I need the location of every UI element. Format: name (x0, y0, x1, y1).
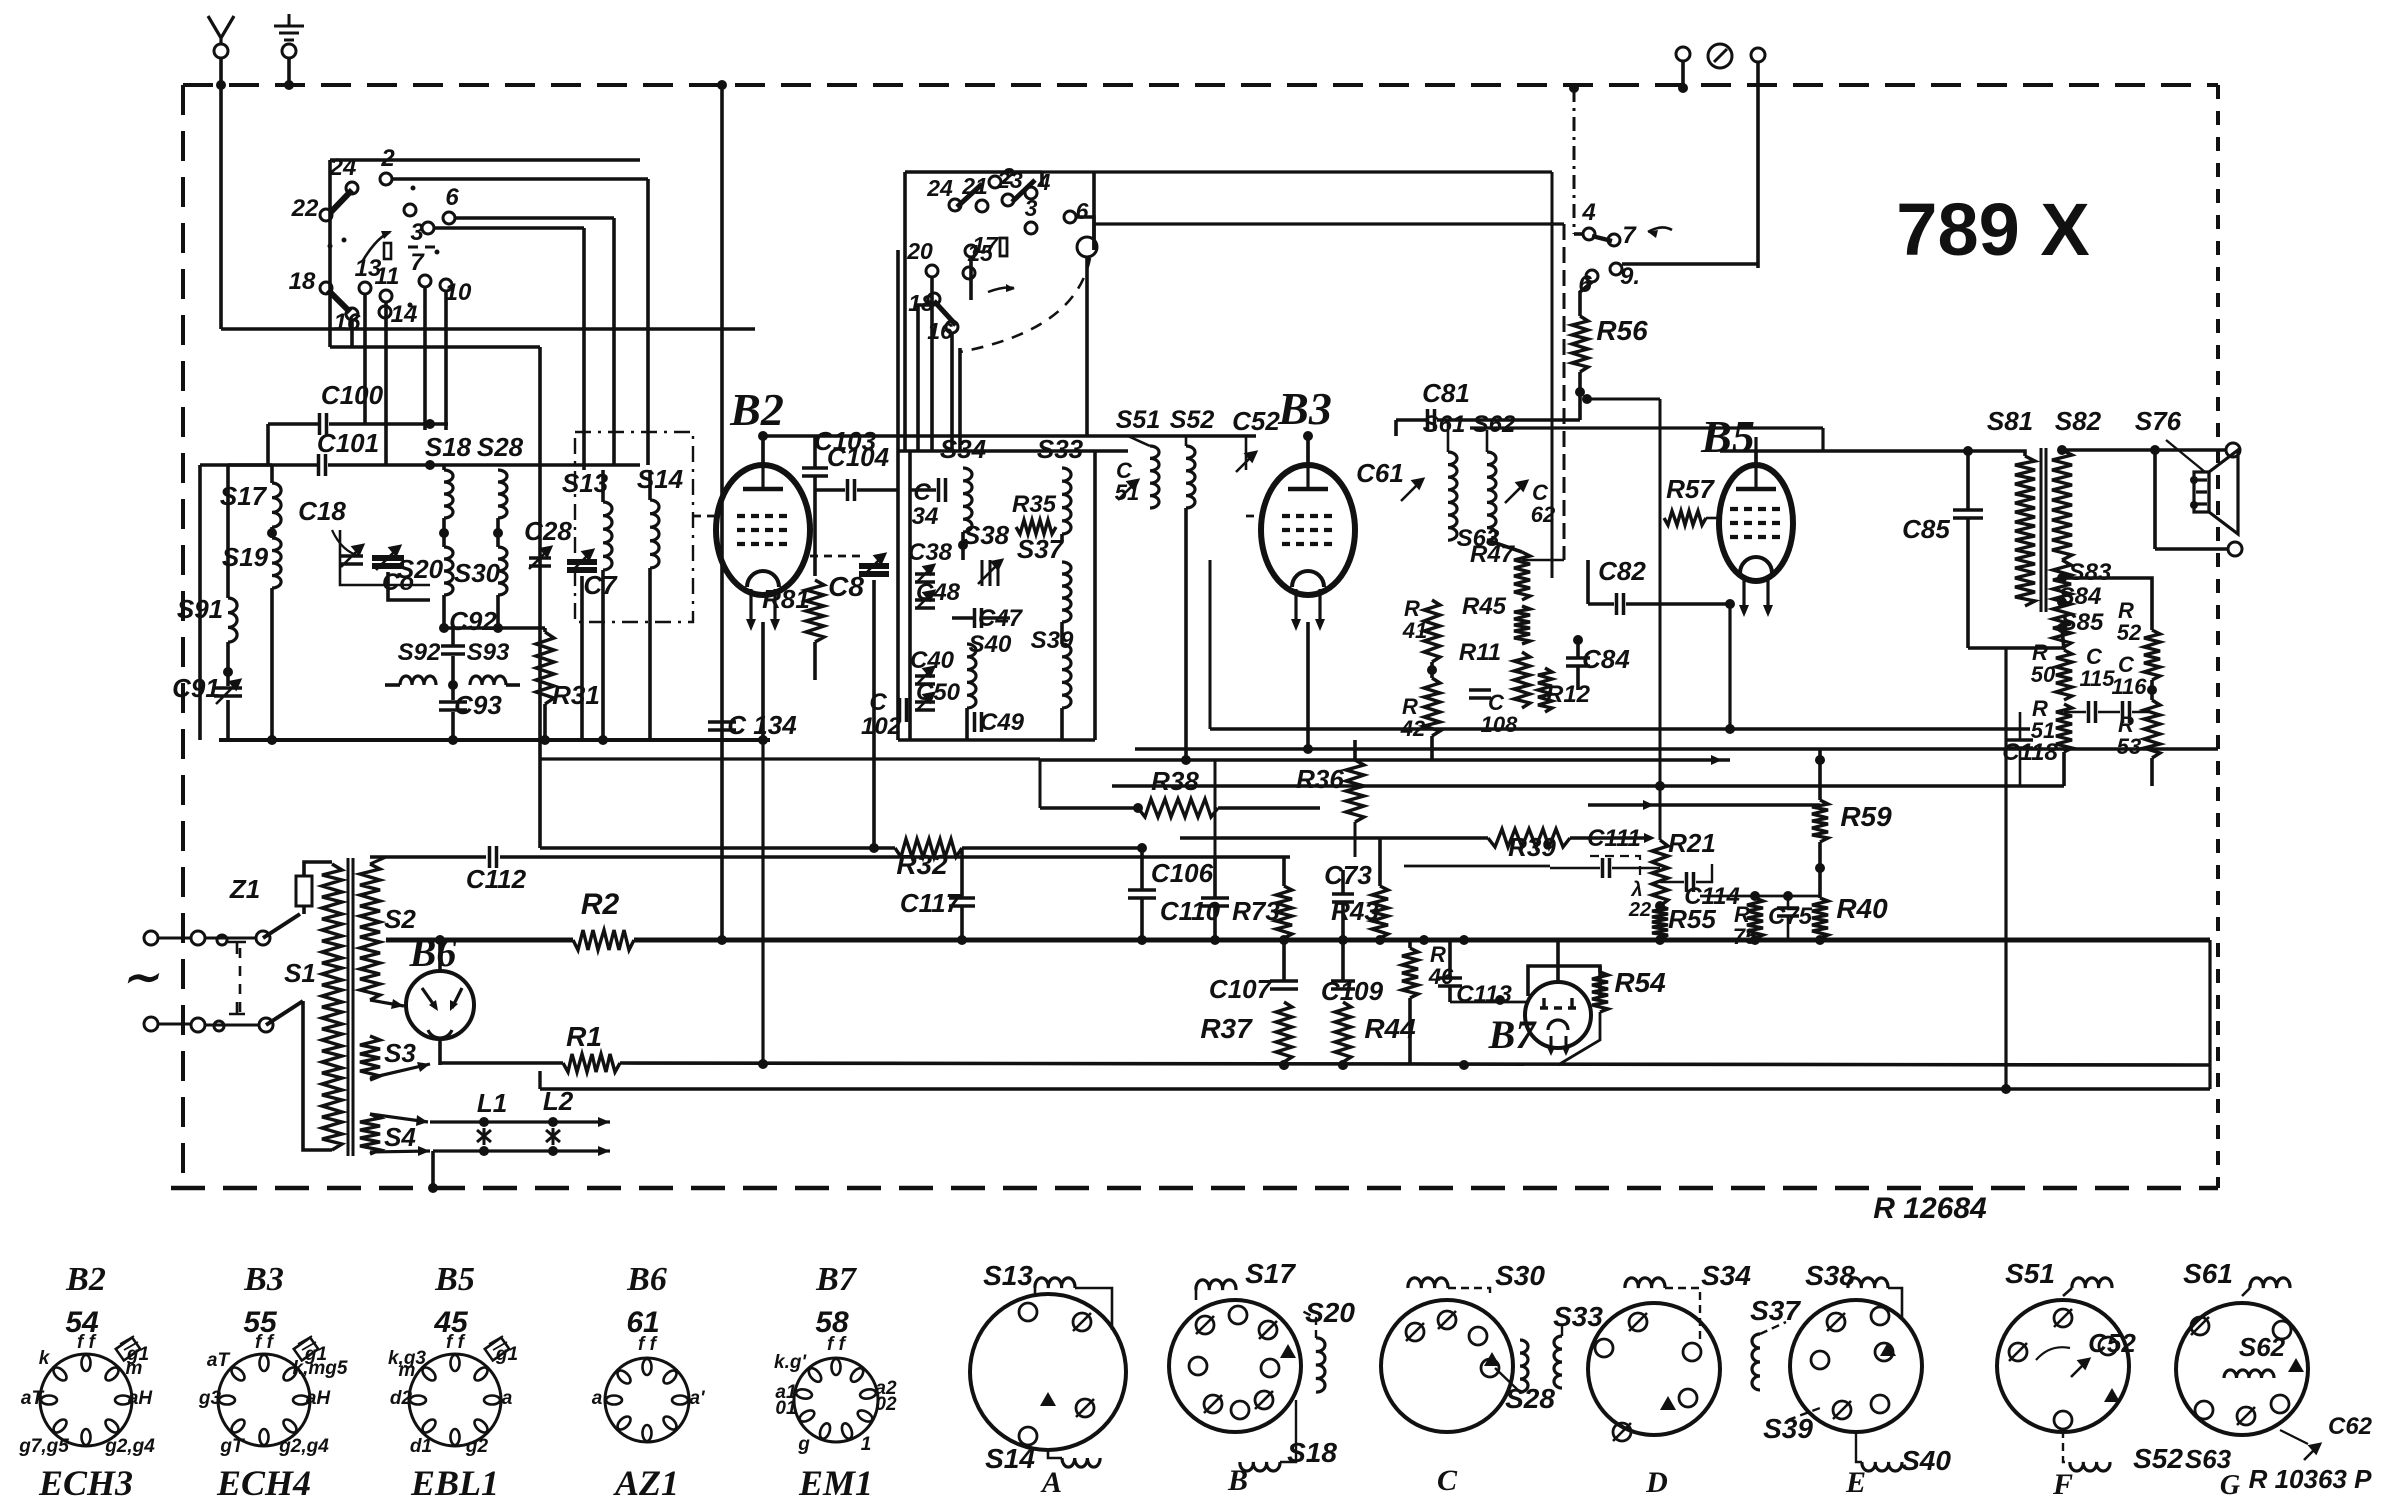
wire R57 to B5 (1706, 517, 1719, 520)
wire C104 row (815, 488, 845, 492)
svg-text:AZ1: AZ1 (613, 1463, 679, 1503)
wire main vertical feeder (720, 85, 724, 940)
wire S1 to primary (303, 1001, 332, 1150)
capacitor C106 (1128, 890, 1156, 898)
S3 arrow (370, 1062, 430, 1078)
svg-text:m: m (399, 1360, 416, 1381)
svg-text:S61: S61 (2183, 1258, 2233, 1289)
svg-text:EM1: EM1 (798, 1463, 873, 1503)
wire R32 row left (540, 846, 895, 850)
wire osc c18 down (918, 305, 934, 451)
switch S76-area contact 7 (1608, 234, 1620, 246)
resistor R12 (1538, 668, 1552, 712)
wire osc c16 down (950, 333, 954, 451)
wire R31 top (543, 628, 547, 632)
coil unit D pin (1683, 1343, 1701, 1361)
svg-text:24: 24 (329, 154, 357, 181)
svg-text:a: a (592, 1388, 603, 1409)
wire C75 stem (1787, 896, 1790, 908)
resistor R47 (1514, 552, 1530, 600)
node bus i (1459, 935, 1469, 945)
svg-text:R37: R37 (1200, 1013, 1253, 1044)
tube B5 (EBL1) (1719, 437, 1793, 617)
node B6 bus (435, 935, 445, 945)
osc switch contact 4 (1025, 187, 1037, 199)
wire S4 ground (431, 1151, 435, 1188)
shield box S13/S14 (dash-dot) (575, 432, 693, 622)
svg-text:11: 11 (375, 263, 400, 290)
coil unit D index (1660, 1396, 1676, 1410)
svg-text:R2: R2 (581, 888, 620, 921)
wire C111 feed (1404, 865, 1550, 868)
wire C85 to S85 (1968, 646, 2062, 650)
wire osc block bottom (898, 738, 1095, 742)
svg-text:S18: S18 (1287, 1437, 1337, 1468)
node b5 g (1725, 724, 1735, 734)
wire S17 top (270, 465, 274, 483)
wire R39 left (1180, 836, 1488, 840)
wire B S17 stub (1195, 1290, 1198, 1300)
node bus d (1210, 935, 1220, 945)
wire C103 stem (813, 436, 817, 468)
svg-text:B2: B2 (729, 384, 784, 435)
wire C113 down (1448, 986, 1452, 1002)
row 805 arrow (1643, 800, 1654, 810)
wire C73 stem (1341, 870, 1345, 894)
svg-text:S92: S92 (398, 639, 441, 666)
coil S37 (1062, 562, 1071, 622)
coil S28 right (1520, 1340, 1528, 1392)
wire S91 bottom (226, 642, 230, 686)
socket B2 g1 cap (116, 1338, 140, 1361)
switch S contact 7 (419, 275, 431, 287)
node C82 right (1725, 599, 1735, 609)
resistor R52 (2144, 630, 2160, 680)
svg-text:S1: S1 (284, 958, 316, 988)
wire contact2 down (646, 179, 650, 465)
coil S39 (1062, 644, 1071, 708)
wire AVC row riser (1209, 560, 1212, 729)
coil S51 (1150, 446, 1159, 508)
pickup terminal right (1751, 48, 1765, 62)
svg-text:C: C (913, 479, 931, 506)
svg-text:S13: S13 (983, 1260, 1033, 1291)
osc switch contact 24 (949, 199, 961, 211)
capacitor C82 (1617, 593, 1624, 615)
svg-text:C49: C49 (980, 709, 1025, 736)
capacitor C84 (1566, 658, 1590, 666)
socket B5 g1 cap (485, 1338, 509, 1361)
var symbol S38 (982, 560, 998, 586)
node cb a (758, 1059, 768, 1069)
mains term small b (214, 1021, 224, 1031)
node bus c (1137, 935, 1147, 945)
coil unit G pin (2195, 1401, 2213, 1419)
coil unit A pin (1076, 1399, 1094, 1417)
capacitor C7 tuning (567, 562, 597, 570)
wire C111 row (1550, 867, 1600, 870)
resistor R31 (536, 632, 554, 704)
svg-text:S18: S18 (425, 432, 472, 462)
antenna wire down (219, 85, 223, 329)
capacitor C103 (802, 468, 828, 476)
coil unit C pin (1481, 1359, 1499, 1377)
node S52 bottom (1181, 755, 1191, 765)
capacitor C115 (2089, 701, 2096, 723)
svg-text:k: k (39, 1348, 51, 1369)
svg-text:ECH3: ECH3 (38, 1463, 133, 1503)
wire B2 grid dash right (810, 555, 866, 558)
mains dashed link (239, 948, 242, 1012)
arrow mark switch (1648, 227, 1672, 232)
node S91-C91 (223, 667, 233, 677)
wire R75 top (1754, 896, 1757, 898)
capacitor C111 (1603, 858, 1610, 878)
S4 arrow a (370, 1114, 428, 1126)
svg-text:aH: aH (128, 1388, 154, 1409)
svg-text:C: C (1437, 1464, 1458, 1497)
svg-text:d1: d1 (410, 1436, 432, 1457)
svg-text:S37: S37 (1017, 534, 1065, 564)
resistor R41 (1424, 600, 1440, 662)
node B2 top (758, 431, 768, 441)
coil S52 (1186, 446, 1195, 508)
wire C114 bend (1696, 864, 1712, 882)
wire pickup to switch contact 9 (1622, 262, 1758, 266)
wire C34 row (910, 488, 936, 492)
wire S61 top (1447, 420, 1450, 452)
C18 leader (332, 530, 360, 556)
switch S contact 16 (346, 308, 358, 320)
coil S14 (650, 500, 659, 568)
wire R56 down (1578, 372, 1582, 420)
switch S contact 13 (359, 282, 371, 294)
C28 arrow (529, 547, 551, 569)
mains link b (205, 937, 256, 940)
output transformer secondary S82 (2052, 450, 2072, 560)
svg-text:S52: S52 (1170, 406, 1215, 434)
switch S76-area contact 4 (1583, 228, 1595, 240)
coil S17 top (1196, 1280, 1236, 1290)
capacitor C100 (320, 413, 327, 435)
wire S62 to R47 (1487, 540, 1522, 552)
osc switch blade c (934, 301, 956, 325)
C91 trimmer arrow (216, 680, 240, 704)
svg-text:C93: C93 (454, 690, 502, 720)
capacitor C102 (900, 698, 907, 722)
mains term 4 (144, 1017, 158, 1031)
svg-text:gT: gT (219, 1436, 245, 1457)
wire C84 stem up (1576, 640, 1580, 658)
wire return up (2208, 940, 2211, 1089)
svg-text:R 12684: R 12684 (1873, 1192, 1987, 1225)
wire contact2 right (392, 177, 648, 181)
capacitor C28 trimmer (529, 558, 551, 566)
capacitor C134 (708, 722, 736, 730)
C40 arrow (916, 667, 934, 685)
svg-text:S14: S14 (985, 1443, 1035, 1474)
wire B3 v down (1354, 822, 1357, 857)
coil unit G pin (2273, 1321, 2291, 1339)
fuse Z1 (296, 876, 312, 906)
wire C0 stem (388, 572, 430, 600)
S76 leader (2166, 440, 2205, 472)
node R59 top (1815, 755, 1825, 765)
svg-text:S33: S33 (1037, 434, 1084, 464)
speaker terminal top (2226, 443, 2240, 457)
resistor R51 (2056, 704, 2072, 752)
wire C100 row (268, 422, 318, 426)
resistor R36 (1346, 760, 1364, 822)
svg-text:B7: B7 (815, 1261, 858, 1298)
coil S34 top (1625, 1278, 1665, 1288)
coil unit D pin (1613, 1423, 1631, 1441)
svg-text:115: 115 (2079, 666, 2115, 691)
coil unit B pin (1231, 1401, 1249, 1419)
earth terminal (282, 44, 296, 58)
wire contact10 drop (1085, 257, 1089, 436)
svg-text:B2: B2 (65, 1261, 106, 1298)
coil S14 bottom (1062, 1458, 1100, 1467)
output transformer core (2041, 448, 2046, 612)
svg-text:3: 3 (410, 219, 424, 246)
osc switch contact 16 (946, 321, 958, 333)
wire G S61 stub (2242, 1288, 2250, 1296)
wire B3 cathode down (1306, 622, 1310, 749)
node S93 right (493, 623, 503, 633)
wire C103 down (813, 476, 817, 576)
coil S33 left (1554, 1336, 1562, 1388)
mains link a (158, 937, 191, 940)
coil S61 (1448, 452, 1457, 540)
wire osc c20 down (930, 277, 934, 451)
svg-text:C110: C110 (1160, 896, 1221, 926)
mains term 2 (191, 931, 205, 945)
lamp L1 (477, 1128, 491, 1145)
svg-text:6: 6 (445, 184, 459, 211)
coil S18 bottom (1240, 1462, 1280, 1471)
capacitor C85 (1953, 510, 1983, 518)
coil unit A pin (1019, 1303, 1037, 1321)
mains switch blade bottom (266, 1001, 303, 1025)
svg-text:R56: R56 (1596, 315, 1648, 346)
osc switch blade a (957, 184, 982, 207)
wire HT bus left (386, 938, 573, 943)
C8 arrow (863, 554, 885, 576)
coil S61 top (2250, 1278, 2290, 1288)
wire cathode bus (620, 1063, 2210, 1065)
wire C82 row (1588, 602, 1614, 606)
svg-text:g: g (797, 1434, 810, 1455)
node bus j (1655, 935, 1665, 945)
resistor R37 (1276, 1002, 1292, 1062)
coil unit A (970, 1294, 1126, 1450)
wire R53 bottom (2150, 758, 2154, 786)
svg-text:C111: C111 (1587, 825, 1641, 852)
capacitor C107 (1270, 981, 1298, 989)
wire C S30 leader (1448, 1288, 1490, 1296)
wire R59 bottom (1818, 842, 1822, 898)
switch S76-area contact x (1610, 263, 1622, 275)
wire C118 stem (2019, 712, 2022, 740)
wire C81 left (1394, 420, 1398, 436)
coil unit C index (1484, 1352, 1500, 1366)
wire contact11 down (384, 302, 388, 465)
svg-text:R40: R40 (1836, 893, 1888, 924)
wire left down (198, 465, 202, 740)
capacitor C101 (319, 454, 326, 476)
coil unit G index (2288, 1358, 2304, 1372)
coil unit C pin (1469, 1327, 1487, 1345)
node L2 top (548, 1117, 558, 1127)
capacitor C117 (949, 898, 975, 906)
svg-text:f f: f f (446, 1332, 466, 1353)
resistor R57 (1664, 511, 1706, 525)
coil S30 top (1408, 1278, 1448, 1288)
switch S contact 24 (346, 182, 358, 194)
svg-text:S39: S39 (1763, 1413, 1813, 1444)
svg-text:F: F (2052, 1468, 2073, 1501)
wire R41-R42 (1430, 662, 1434, 678)
svg-text:18: 18 (289, 268, 316, 295)
wire osc c17 down (969, 257, 973, 300)
S4 arrow b (370, 1146, 430, 1156)
wire C84 stem dn (1576, 666, 1580, 690)
wire R50 top (2062, 628, 2064, 650)
wire C75 down (1787, 916, 1790, 938)
coil unit E pin (1875, 1343, 1893, 1361)
svg-text:S28: S28 (1505, 1383, 1555, 1414)
svg-text:B5: B5 (434, 1261, 475, 1298)
svg-text:C107: C107 (1209, 974, 1273, 1004)
wire B3 top lead (1306, 436, 1310, 465)
wire switch feed B2 (538, 347, 542, 848)
wire c4 left (1574, 232, 1583, 236)
wire bundle v2 (958, 348, 962, 451)
node gnd3 (540, 735, 550, 745)
resistor R59 (1812, 800, 1828, 842)
wire B2 cathode down (761, 622, 765, 740)
wire B5 anode to S81 (1720, 451, 2025, 456)
svg-text:d2: d2 (390, 1388, 413, 1409)
wire row 896 (1700, 895, 1820, 898)
wire C100 row b (329, 422, 448, 426)
svg-text:S62: S62 (2239, 1332, 2286, 1362)
transformer winding S3 (360, 1036, 380, 1080)
resistor R53 (2144, 700, 2160, 758)
wire contact6 right (455, 216, 614, 220)
node R32 right (1137, 843, 1147, 853)
coil unit D pin (1629, 1313, 1647, 1331)
svg-text:S83: S83 (2069, 559, 2112, 586)
wire R38 left (1040, 806, 1138, 810)
switch S76-area contact 6 (1586, 270, 1598, 282)
svg-text:R55: R55 (1668, 904, 1716, 934)
svg-text:52: 52 (2117, 620, 2142, 645)
wire B3 grid dash left (1246, 515, 1262, 518)
wire S91 top (226, 465, 230, 598)
svg-text:f f: f f (827, 1334, 847, 1355)
svg-text:f f: f f (77, 1332, 97, 1353)
wire B7 top (1556, 940, 1560, 982)
blade top switch (1592, 236, 1612, 241)
node right link (2001, 1084, 2011, 1094)
svg-text:4: 4 (1581, 199, 1595, 226)
coil S40 (967, 644, 976, 708)
wire C101 row (200, 463, 317, 467)
wire main feed row b (500, 855, 1290, 859)
wire C106 stem (1140, 848, 1144, 890)
wire C107 stem (1282, 940, 1286, 981)
capacitor C113 (1438, 978, 1462, 986)
wire R32 row right (962, 846, 1142, 850)
switch blade upper (330, 190, 352, 213)
resistor R50 (2056, 650, 2072, 700)
socket B3 g1 cap (294, 1338, 318, 1361)
svg-text:S82: S82 (2055, 406, 2102, 436)
coil S91 (228, 598, 237, 642)
wire bundle right v1 (1551, 172, 1554, 578)
wire osc right rail (1040, 172, 1044, 187)
svg-text:R1: R1 (566, 1021, 602, 1052)
coil unit D (1588, 1303, 1720, 1435)
wire mid v2 (1214, 760, 1217, 857)
wire c6 to R56 (1580, 282, 1592, 316)
node b7 in (1495, 995, 1505, 1005)
wire dashdot down (1573, 88, 1576, 234)
chassis border right (dashed) (2216, 85, 2220, 1188)
coil S20 (444, 547, 453, 595)
osc switch contact 6 (1064, 211, 1076, 223)
coil unit D pin (1679, 1389, 1697, 1407)
svg-text:7: 7 (1622, 222, 1637, 249)
tube B3 (ECH4) (1261, 437, 1355, 631)
svg-text:18: 18 (908, 290, 934, 316)
svg-text:aT: aT (207, 1350, 231, 1371)
svg-text:D: D (1645, 1466, 1668, 1499)
wire F S52 stub (2063, 1430, 2070, 1462)
wire bundle right v2 (1563, 224, 1566, 560)
capacitor C49 (975, 712, 982, 732)
switch S contact 14 (379, 306, 391, 318)
capacitor C118 (2007, 740, 2033, 748)
capacitor C91 (214, 688, 242, 696)
node bus k (1750, 935, 1760, 945)
svg-text:m: m (126, 1358, 143, 1379)
wire R56 to C81 row (1470, 418, 1580, 422)
junction top border feeder (717, 80, 727, 90)
svg-text:C113: C113 (1456, 981, 1512, 1008)
S2 arrow to B6 anode (370, 999, 404, 1009)
resistor R32 (895, 839, 962, 857)
capacitor C8 tuning (859, 566, 889, 574)
wire S92 frame (385, 683, 400, 687)
svg-text:10: 10 (445, 279, 472, 306)
svg-text:S33: S33 (1553, 1301, 1603, 1332)
coil unit A index (1040, 1392, 1056, 1406)
wire R43 top (1378, 838, 1382, 886)
svg-text:22: 22 (291, 195, 319, 222)
coil unit F index (2104, 1388, 2120, 1402)
capacitor C18 trimmer (341, 556, 363, 564)
svg-text:g7,g5: g7,g5 (18, 1436, 69, 1457)
svg-text:102: 102 (861, 713, 902, 740)
coil unit E pin (1871, 1307, 1889, 1325)
coil S33 (1062, 468, 1071, 534)
C111 dash frame (1590, 856, 1640, 880)
node L1 bot (479, 1146, 489, 1156)
svg-text:ECH4: ECH4 (216, 1463, 311, 1503)
